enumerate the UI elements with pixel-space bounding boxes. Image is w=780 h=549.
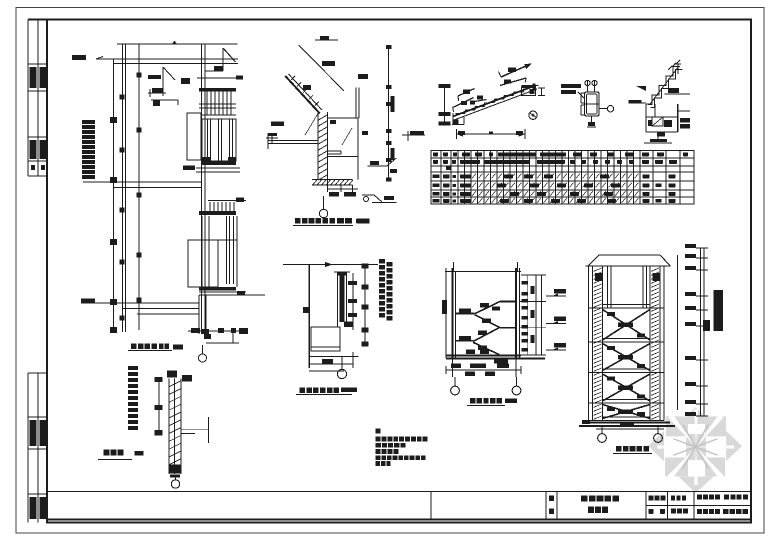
- D7 right column: [650, 266, 660, 421]
- D1 roof slab double line: [96, 58, 238, 60]
- Dm thick bar: [340, 274, 345, 322]
- D1 lower floor lines: [137, 313, 199, 315]
- watermark center block: [686, 434, 706, 460]
- D6 flight1 down diagonal: [475, 315, 500, 328]
- D1 floor lines mid: [83, 181, 202, 183]
- D5 base: [657, 132, 659, 139]
- D2 notch drop: [357, 157, 359, 180]
- D6 flight1 landing: [456, 313, 475, 315]
- Dm title: [300, 388, 306, 394]
- table column lines: [440, 151, 442, 205]
- D1 unit1 sill band: [202, 114, 236, 116]
- D3 rebar segment D: [453, 98, 474, 108]
- D1 wall below: [198, 295, 200, 334]
- D1 top line tick: [172, 41, 177, 45]
- binding blocks pair4: [30, 497, 37, 519]
- D4 bottom tick: [591, 116, 593, 122]
- D1 unit2 balusters: [209, 202, 211, 211]
- D6 left dim: [445, 268, 447, 358]
- title block band: [47, 491, 751, 493]
- watermark squares: [666, 416, 688, 436]
- D2 roof label: [322, 61, 335, 66]
- Dm vertical wall line: [308, 265, 310, 369]
- watermark tip arrow bottom: [679, 477, 714, 493]
- D1 wall A double: [122, 44, 124, 332]
- D2 wall double vertical: [317, 112, 319, 180]
- D3 landing beam: [522, 87, 536, 95]
- D7 H labels: [595, 273, 602, 281]
- D2 step lines right: [328, 150, 342, 152]
- D5 step top vertical: [677, 64, 679, 74]
- D3 rebar segment A: [501, 66, 526, 77]
- D1 title: [131, 344, 137, 350]
- D2 sub-detail 2: [362, 194, 374, 196]
- watermark tip arrow right: [726, 431, 742, 461]
- D6 left wall: [452, 268, 454, 358]
- title block right grid texts row1: [649, 496, 654, 501]
- title block right grid: [646, 505, 751, 507]
- D5 left black bar: [628, 100, 641, 103]
- D1 unit1 mid rail: [199, 103, 236, 105]
- notes text block: [376, 429, 381, 434]
- Dm balloon: [341, 357, 343, 370]
- D1 balloon: [202, 345, 204, 354]
- D1 unit1 rail band: [199, 88, 236, 92]
- D4 right leader and circle: [599, 108, 607, 110]
- D6 title: [470, 398, 475, 404]
- D3 rebar segment E: [475, 100, 487, 102]
- watermark center sparkle: [674, 425, 717, 468]
- D1 wall B double: [201, 44, 203, 334]
- D7 base: [582, 420, 590, 424]
- D1 unit1 floor band: [196, 167, 240, 169]
- D1 unit1 pier rect: [187, 113, 201, 160]
- D1 unit2 slab band: [199, 287, 236, 291]
- Dm rect box: [311, 327, 340, 351]
- binding blocks pair2: [30, 140, 37, 159]
- Dbl bottom block: [169, 465, 182, 474]
- D1 wall A ticks: [120, 95, 125, 100]
- D5 right shelf line: [665, 93, 690, 95]
- D6 flight2 down diagonal: [473, 342, 499, 354]
- binding blocks pair1: [30, 67, 37, 88]
- D3 rebar segment B: [500, 78, 526, 86]
- D1 unit1 slab band: [202, 161, 236, 165]
- D4 left brackets: [580, 93, 582, 103]
- table small row blob: [446, 167, 451, 171]
- D1 bottom dim: [206, 342, 239, 344]
- D1 bottom line: [82, 302, 199, 304]
- D1 left dim line: [113, 59, 115, 330]
- D1 unit1 balusters: [206, 92, 208, 116]
- D5 step diagonal: [650, 66, 679, 104]
- D5 hatch on top: [668, 66, 672, 70]
- binding strip upper: [27, 20, 29, 177]
- D1 unit2 rail band: [199, 211, 236, 215]
- D2 roof thin diagonal: [299, 45, 344, 91]
- table row lines: [431, 180, 694, 182]
- D1 unit2 window: [188, 240, 218, 287]
- D6 flight2 landing: [456, 340, 474, 342]
- Dbl vertical text column: [128, 366, 138, 370]
- D6 bottom dims: [452, 359, 454, 378]
- D7 floors and braces: [589, 307, 665, 309]
- D3 slope main: [453, 86, 536, 117]
- D5 inner lines: [646, 116, 678, 118]
- D4 body: [585, 92, 600, 116]
- D7 right dim lines: [700, 248, 702, 416]
- binding strip lower: [27, 373, 29, 523]
- table header text blobs: [433, 153, 438, 157]
- watermark tip arrow left: [648, 431, 664, 461]
- D5 below blobs: [657, 132, 665, 137]
- Dbl dim vertical: [158, 379, 160, 434]
- D1 level mark mid: [81, 299, 95, 304]
- D7 open top bay verticals: [607, 266, 609, 308]
- D1 top parapet line: [117, 43, 238, 45]
- title block right grid texts row2: [649, 509, 654, 514]
- Dm top line: [283, 264, 378, 266]
- D1 level cross mark: [266, 137, 278, 139]
- D1 inner line: [138, 44, 140, 330]
- D2 roof thick diagonal: [285, 76, 320, 114]
- watermark logo: [648, 407, 742, 493]
- D1 level mark 4.800: [72, 55, 86, 60]
- D2 right level mark: [402, 134, 425, 136]
- D3 bottom dim line: [456, 133, 525, 135]
- watermark tip arrow top: [680, 407, 711, 424]
- D2 balloon: [323, 196, 325, 209]
- D5 body outline: [645, 104, 647, 132]
- D7 far right black bar: [714, 290, 723, 331]
- D2 beam notch: [328, 118, 359, 157]
- D1 unit2 floor band: [199, 291, 246, 293]
- D6 flight1 up diagonal: [475, 302, 500, 314]
- Dm right verticals: [352, 273, 354, 330]
- D2 sub-detail hook: [368, 165, 387, 167]
- D6 top line: [445, 271, 521, 273]
- watermark white rays: [657, 409, 734, 485]
- title block divider 2: [545, 492, 547, 520]
- D6 right annotation columns: [527, 275, 529, 355]
- D1 unit1 window: [202, 119, 236, 161]
- Dm vertical text columns: [379, 259, 385, 264]
- D7 roof cap: [599, 254, 660, 256]
- D1 unit2 rail line: [208, 200, 246, 202]
- D6 base slab: [446, 355, 521, 357]
- D2 floor double line left: [268, 140, 318, 142]
- binding blocks pair3: [30, 420, 37, 446]
- D1 vertical text column: [82, 120, 95, 124]
- Dm dim vertical: [364, 265, 366, 346]
- Dbl wall hatched: [168, 379, 170, 475]
- D6 flight2 up diagonal: [473, 328, 499, 342]
- D1 unit1 rail line: [197, 77, 243, 79]
- D3 right bracket: [541, 88, 543, 96]
- D2 bottom dim: [327, 180, 329, 193]
- title block M6 cell: [549, 496, 554, 502]
- table frame: [431, 151, 694, 205]
- D5 black wedge: [636, 86, 646, 91]
- D7 outer walls: [588, 266, 590, 421]
- D2 top tick: [315, 39, 338, 41]
- D4 section cut circles: [585, 80, 590, 85]
- D2 leader diagonal: [305, 113, 318, 135]
- D3 left dim line: [444, 86, 446, 125]
- title block drawing name cell: [645, 492, 647, 520]
- D7 left column: [593, 266, 603, 421]
- D2 title: [295, 218, 301, 224]
- D1 parapet gutter: [222, 48, 224, 71]
- title block divider 3: [556, 492, 558, 520]
- table data blobs and slashes: [433, 175, 440, 179]
- D5 right blobs: [680, 118, 690, 123]
- Dm bar bottom arrow: [344, 322, 353, 327]
- D2 right dim line: [388, 47, 390, 180]
- D2 slab band bottom: [312, 179, 353, 181]
- table data dark cells: [504, 175, 513, 179]
- title block divider 1: [430, 492, 432, 520]
- D3 landing right: [522, 86, 536, 88]
- Dbl mid tee: [181, 428, 208, 430]
- Dbl title: [104, 450, 110, 456]
- Dbl balloon: [175, 478, 177, 481]
- D1 rain leader detail: [148, 75, 161, 79]
- D2 slope label: [303, 85, 311, 90]
- D2 wall hatch: [319, 115, 328, 120]
- D3 left bottom step: [452, 113, 454, 125]
- D6 right wall: [515, 268, 517, 358]
- D7 base drops and balloons: [601, 426, 603, 433]
- D5 top stair steps: [648, 67, 680, 105]
- D1 foundation blobs: [191, 328, 200, 333]
- D7 title: [616, 446, 622, 452]
- D3 camera circle: [529, 111, 537, 119]
- Dbl top blobs: [167, 371, 177, 378]
- D2 pipe vertical: [355, 88, 357, 119]
- D6 right level arrows: [546, 295, 566, 297]
- table header band: [431, 157, 694, 159]
- D2 hatch on roof: [291, 76, 295, 80]
- D3 steps: [456, 113, 466, 115]
- binding dot block: [31, 165, 35, 170]
- D3 rebar segment C: [458, 89, 475, 97]
- Dm bottom lines: [309, 356, 359, 358]
- D6 balloons: [454, 377, 456, 386]
- D4 labels left: [561, 84, 581, 88]
